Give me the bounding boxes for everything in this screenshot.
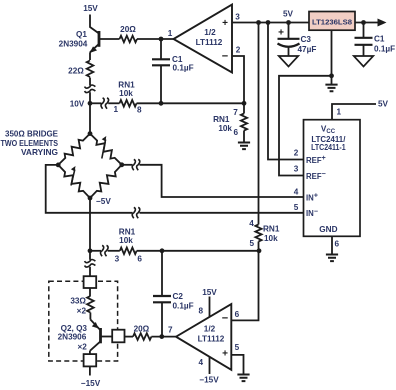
- ground triangle below C1 right: [354, 56, 374, 67]
- node divider / op-amp B pin6: [257, 248, 262, 253]
- svg-text:7: 7: [168, 326, 173, 335]
- ground (earth) chip: [326, 255, 338, 262]
- node bridge left: [56, 163, 61, 168]
- svg-text:6: 6: [234, 128, 239, 137]
- resistor 20ohm (bottom): [133, 333, 151, 340]
- svg-text:RN1: RN1: [263, 225, 280, 234]
- node bridge bottom / RN1-3: [88, 248, 93, 253]
- svg-text:5: 5: [294, 203, 299, 212]
- svg-text:22Ω: 22Ω: [68, 66, 84, 75]
- svg-text:0.1µF: 0.1µF: [173, 64, 194, 73]
- svg-text:8: 8: [137, 105, 142, 114]
- svg-text:7: 7: [233, 108, 238, 117]
- ground (earth) LT1236: [325, 85, 337, 92]
- svg-text:3: 3: [115, 254, 120, 263]
- svg-text:1: 1: [337, 108, 342, 117]
- svg-text:×2: ×2: [77, 342, 87, 351]
- node rail/REF+: [266, 20, 271, 25]
- wire square to 33ohm: [89, 288, 91, 296]
- svg-text:5V: 5V: [378, 100, 389, 109]
- svg-text:2: 2: [236, 46, 241, 55]
- pin 8 supply 15V: [209, 297, 211, 317]
- connector square top: [84, 276, 97, 288]
- svg-text:Q2, Q3: Q2, Q3: [61, 324, 88, 333]
- break symbol: [101, 98, 104, 109]
- wire 15V to Q1 collector: [90, 15, 99, 34]
- svg-text:LT1112: LT1112: [196, 38, 223, 47]
- svg-text:Q1: Q1: [76, 30, 87, 39]
- svg-text:33Ω: 33Ω: [70, 297, 86, 306]
- op-amp U1b 1/2 LT1112: [176, 304, 231, 370]
- bridge arm top-left (fixed): [58, 134, 90, 165]
- svg-text:×2: ×2: [77, 307, 87, 316]
- node rail 5V/C3: [286, 20, 291, 25]
- wire Q2 base to connector: [101, 336, 113, 338]
- node C2 top: [160, 248, 165, 253]
- wire LT1236 gnd to REF-: [279, 76, 332, 176]
- svg-text:10k: 10k: [264, 234, 278, 243]
- svg-text:+: +: [222, 18, 228, 29]
- bridge arm top-right (varying, arrow): [90, 134, 122, 165]
- wire LT1236 GND pin down: [331, 30, 333, 84]
- svg-text:350Ω BRIDGE: 350Ω BRIDGE: [5, 129, 59, 138]
- svg-text:6: 6: [335, 239, 340, 248]
- resistor 22ohm: [87, 61, 94, 78]
- op-amp U1a 1/2 LT1112: [174, 5, 233, 73]
- wire connector to 20ohm: [125, 336, 134, 338]
- svg-text:−15V: −15V: [81, 379, 101, 388]
- svg-text:4: 4: [294, 187, 299, 196]
- wire bridge left to IN-: [46, 165, 133, 213]
- svg-text:10k: 10k: [119, 236, 133, 245]
- svg-text:15V: 15V: [202, 288, 217, 297]
- svg-text:−: −: [222, 313, 228, 325]
- node rail/C1 right: [361, 20, 366, 25]
- svg-text:20Ω: 20Ω: [134, 324, 150, 333]
- wire pin6 up to divider node: [231, 251, 258, 321]
- voltage reference LT1236LS8: [309, 12, 355, 31]
- svg-text:2N3904: 2N3904: [59, 40, 88, 49]
- node 10V: [88, 101, 93, 106]
- svg-text:−: −: [222, 51, 228, 63]
- svg-text:0.1µF: 0.1µF: [374, 45, 395, 54]
- wire bridge bottom down: [89, 198, 91, 260]
- svg-text:−5V: −5V: [96, 197, 111, 206]
- node rail/RN1-4: [256, 20, 261, 25]
- svg-text:LTC2411-1: LTC2411-1: [311, 143, 346, 152]
- svg-text:3: 3: [294, 165, 299, 174]
- svg-text:LT1236LS8: LT1236LS8: [312, 17, 353, 26]
- wire pin5 to ground: [231, 355, 243, 374]
- svg-text:C3: C3: [301, 35, 312, 44]
- svg-text:20Ω: 20Ω: [120, 25, 136, 34]
- svg-text:+: +: [222, 348, 228, 359]
- wire op-amp pin3 to 5V rail, arrow right: [232, 22, 379, 24]
- svg-text:10V: 10V: [70, 99, 85, 108]
- ground (earth) op-amp B pin5: [237, 375, 249, 382]
- dashed enclosure (heater elements): [49, 281, 118, 361]
- svg-text:4: 4: [198, 358, 203, 367]
- resistor RN1 pins 3-6, 10k: [90, 250, 101, 252]
- wire 20ohm to op-amp pin7: [151, 336, 176, 338]
- pin 4 supply -15V: [209, 357, 211, 374]
- svg-text:1/2: 1/2: [204, 325, 216, 334]
- svg-text:−15V: −15V: [199, 376, 219, 385]
- svg-text:6: 6: [235, 310, 240, 319]
- wire op-amp pin2 down to RN1-7 node: [232, 56, 244, 103]
- svg-text:VARYING: VARYING: [21, 148, 58, 157]
- ground triangle below C3: [279, 56, 299, 67]
- svg-text:1: 1: [168, 29, 173, 38]
- capacitor C3 47uF polarized: [288, 23, 290, 39]
- wire Q1 base: [99, 38, 120, 40]
- svg-text:RN1: RN1: [119, 227, 136, 236]
- resistor 33ohm x2: [87, 296, 94, 313]
- wire bridge right to IN+: [122, 164, 133, 166]
- node op-amp pin1 junction: [159, 37, 164, 42]
- connector square bottom: [84, 354, 97, 366]
- svg-text:6: 6: [137, 254, 142, 263]
- capacitor C1 0.1uF (right): [363, 23, 365, 38]
- svg-text:2N3906: 2N3906: [58, 333, 87, 342]
- svg-text:47µF: 47µF: [298, 45, 317, 54]
- wire RN1-6 to divider node: [137, 250, 259, 252]
- ground (earth) below RN1-6: [238, 143, 250, 150]
- svg-text:3: 3: [235, 13, 240, 22]
- resistor RN1 pins 4-5, 10k: [255, 225, 261, 242]
- bridge arm bottom-left (varying, arrow): [58, 165, 90, 198]
- svg-text:2: 2: [294, 149, 299, 158]
- pin 6 GND: [331, 236, 333, 254]
- wire 10V node to RN1 pin1: [90, 102, 102, 104]
- svg-text:1/2: 1/2: [204, 28, 216, 37]
- node LT1236 gnd: [329, 73, 334, 78]
- node pin7/C2: [159, 334, 164, 339]
- svg-text:4: 4: [249, 219, 254, 228]
- capacitor C2 0.1uF: [161, 251, 163, 295]
- ADC U2 LTC2411/LTC2411-1: [304, 120, 361, 237]
- arrow head: [378, 19, 387, 27]
- wire 5V rail down to REF+: [268, 23, 304, 160]
- capacitor C1 0.1uF (left): [160, 39, 162, 59]
- break symbol (vertical): [85, 260, 96, 263]
- resistor RN1 pins 7-6, 10k: [243, 103, 245, 113]
- break symbol (vertical wire): [85, 85, 96, 88]
- svg-text:C2: C2: [173, 292, 184, 301]
- svg-text:LT1112: LT1112: [198, 334, 225, 343]
- wire to -15V: [89, 366, 91, 375]
- svg-text:15V: 15V: [83, 4, 98, 13]
- svg-text:10k: 10k: [119, 89, 133, 98]
- pin 1 VCC to 5V: [332, 104, 376, 120]
- transistor Q2,Q3 2N3906 x2: [89, 313, 91, 320]
- svg-text:8: 8: [198, 307, 203, 316]
- svg-text:C1: C1: [374, 35, 385, 44]
- node C1 bottom: [159, 101, 164, 106]
- resistor 20ohm (top): [120, 36, 138, 43]
- wire 5V rail down to RN1-4 (long vertical): [258, 23, 260, 225]
- wire 20ohm to op-amp pin1: [137, 38, 174, 40]
- wire Q1 emitter to 22ohm: [89, 52, 91, 60]
- node bridge right: [119, 162, 124, 167]
- node bridge bottom, -5V: [88, 196, 93, 201]
- svg-text:5: 5: [250, 239, 255, 248]
- connector square right: [112, 330, 124, 343]
- svg-text:0.1µF: 0.1µF: [173, 302, 194, 311]
- bridge arm bottom-right (fixed): [90, 165, 122, 198]
- svg-text:5V: 5V: [283, 9, 294, 18]
- svg-text:+: +: [278, 28, 284, 39]
- transistor Q1 2N3904: [98, 31, 101, 47]
- svg-text:1: 1: [114, 105, 119, 114]
- wire 22ohm to 10V node: [89, 78, 91, 86]
- svg-text:5: 5: [235, 343, 240, 352]
- svg-text:GND: GND: [319, 225, 337, 234]
- svg-text:10k: 10k: [218, 124, 232, 133]
- node op-amp pin2 / RN1 pin7: [242, 101, 247, 106]
- svg-text:TWO ELEMENTS: TWO ELEMENTS: [1, 139, 59, 148]
- node bridge top: [88, 131, 93, 136]
- wire RN1 pin8 to pin2 node: [137, 102, 245, 104]
- resistor RN1 pins 1-8, 10k: [120, 100, 137, 107]
- svg-text:RN1: RN1: [213, 115, 230, 124]
